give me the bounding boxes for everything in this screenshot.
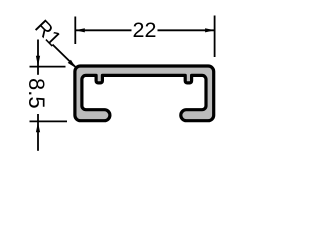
width dimension 22: right extension line — [214, 16, 216, 58]
width dimension 22: dimension line right segment — [158, 29, 215, 31]
corner radius callout R1: arrowhead — [68, 60, 76, 68]
width dimension 22: right arrowhead — [205, 28, 215, 32]
width dimension 22: dimension line left segment — [75, 29, 131, 31]
height dimension 8.5: upper stem — [37, 40, 39, 75]
svg-text:22: 22 — [133, 18, 157, 42]
extrusion profile cross-section (C-channel with inner ribs and bottom lips) — [75, 66, 214, 121]
svg-text:8.5: 8.5 — [24, 78, 49, 109]
height dimension 8.5: top witness line — [30, 66, 66, 68]
width dimension 22: left arrowhead — [75, 28, 85, 32]
height dimension 8.5: downward arrowhead — [36, 56, 40, 67]
corner radius callout R1: leader line — [53, 45, 76, 68]
height dimension 8.5: lower stem — [37, 114, 39, 151]
height dimension 8.5: upward arrowhead — [36, 122, 40, 132]
height dimension 8.5: bottom witness line — [30, 120, 68, 122]
width dimension 22: left extension line — [74, 17, 76, 45]
